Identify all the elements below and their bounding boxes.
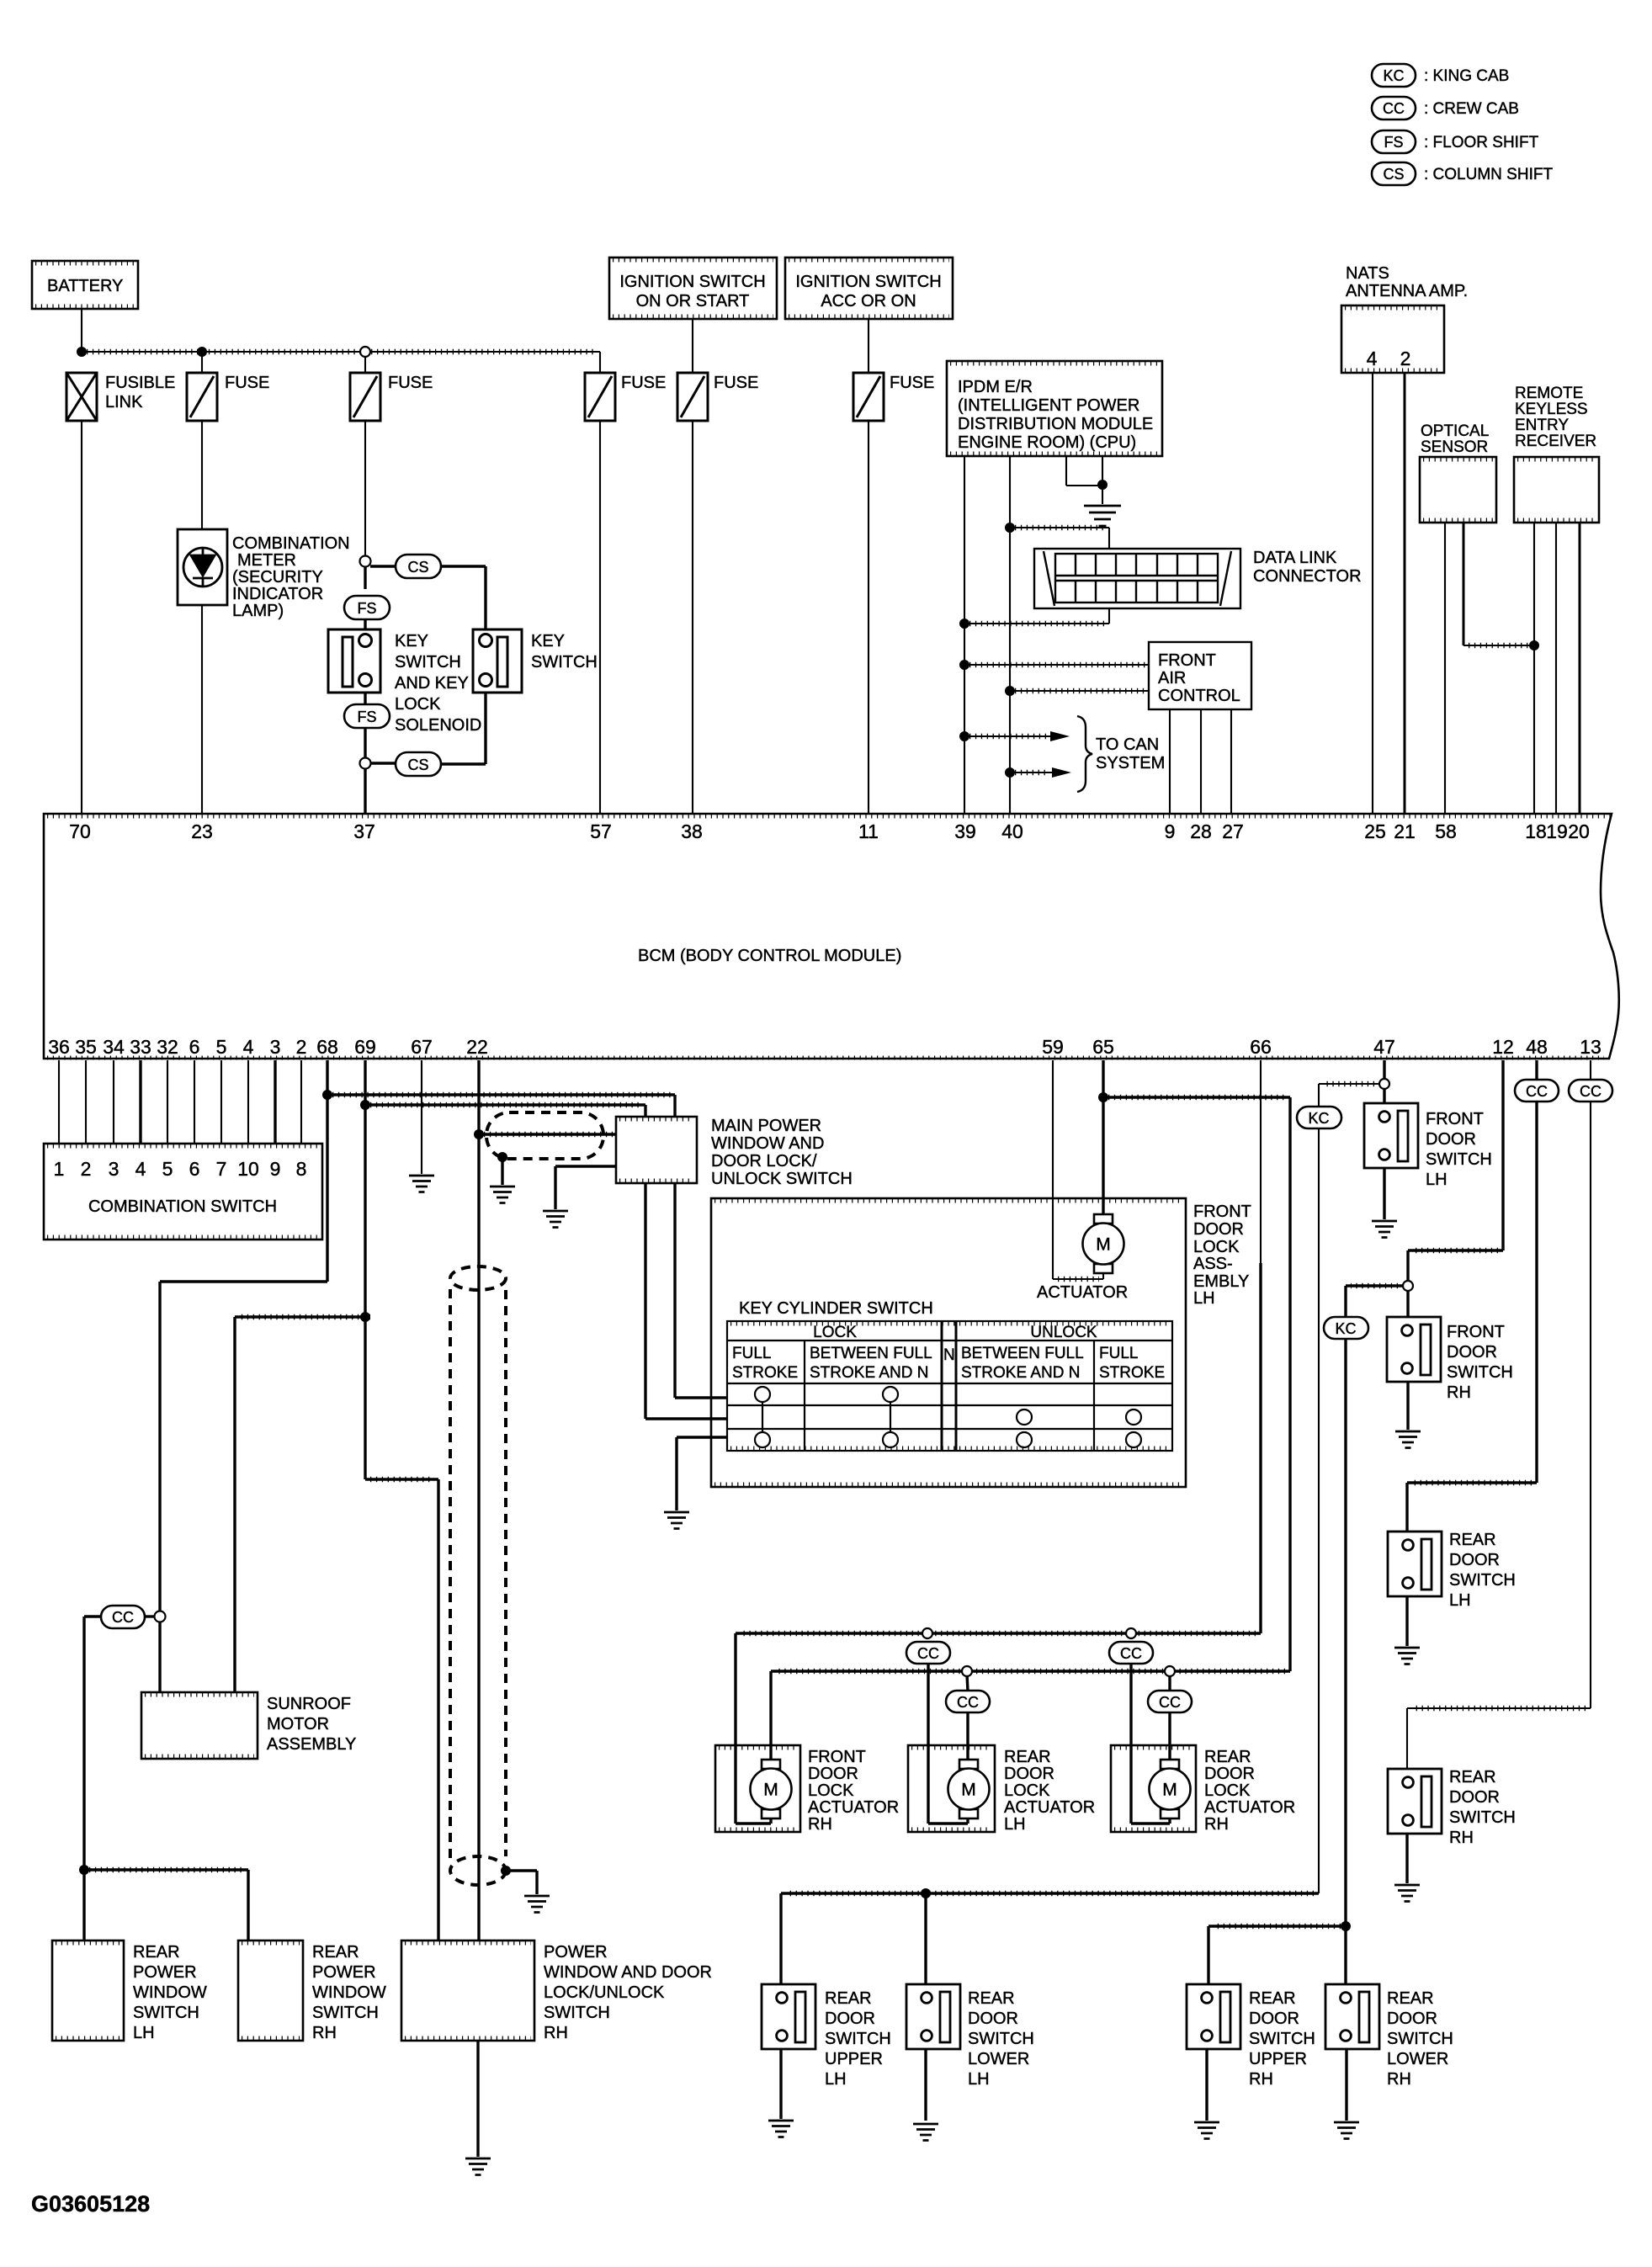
svg-text:22: 22 (466, 1036, 488, 1058)
svg-text:ACTUATOR: ACTUATOR (1204, 1798, 1295, 1817)
svg-text:SWITCH: SWITCH (531, 653, 598, 672)
svg-text:DATA LINK: DATA LINK (1253, 549, 1337, 567)
svg-text:ON OR START: ON OR START (636, 292, 750, 311)
svg-text:LH: LH (1449, 1591, 1471, 1610)
svg-text:4: 4 (135, 1158, 146, 1180)
svg-text:CONTROL: CONTROL (1158, 687, 1240, 705)
svg-text:RH: RH (312, 2024, 337, 2042)
svg-text:40: 40 (1001, 820, 1023, 842)
svg-text:REMOTE: REMOTE (1515, 385, 1583, 402)
svg-text:BETWEEN FULL: BETWEEN FULL (961, 1345, 1084, 1362)
svg-text:KEYLESS: KEYLESS (1515, 401, 1588, 418)
svg-text:LOCK: LOCK (395, 695, 441, 714)
svg-text:59: 59 (1042, 1036, 1064, 1058)
svg-text:FUSE: FUSE (890, 374, 934, 392)
svg-text:COMBINATION SWITCH: COMBINATION SWITCH (88, 1197, 277, 1216)
svg-text:57: 57 (590, 820, 612, 842)
svg-text:LH: LH (133, 2024, 155, 2042)
svg-text:48: 48 (1526, 1036, 1548, 1058)
svg-text:SWITCH: SWITCH (312, 2004, 379, 2022)
svg-text:POWER: POWER (312, 1963, 376, 1982)
svg-text:FRONT: FRONT (1158, 651, 1216, 670)
svg-text:DOOR: DOOR (825, 2010, 875, 2028)
svg-text:IGNITION SWITCH: IGNITION SWITCH (619, 273, 765, 291)
svg-text:FUSE: FUSE (225, 374, 269, 392)
svg-text:LOCK: LOCK (1204, 1781, 1251, 1800)
svg-text:IGNITION SWITCH: IGNITION SWITCH (795, 273, 941, 291)
svg-text:68: 68 (316, 1036, 338, 1058)
svg-text:STROKE AND N: STROKE AND N (810, 1364, 928, 1382)
svg-text:BETWEEN FULL: BETWEEN FULL (810, 1345, 932, 1362)
svg-text:TO CAN: TO CAN (1096, 735, 1159, 754)
svg-text:REAR: REAR (1004, 1748, 1051, 1766)
svg-text:CC: CC (957, 1694, 979, 1711)
svg-text:SWITCH: SWITCH (968, 2030, 1034, 2048)
svg-text:WINDOW: WINDOW (312, 1983, 386, 2002)
svg-text:POWER: POWER (133, 1963, 197, 1982)
svg-text:UNLOCK SWITCH: UNLOCK SWITCH (711, 1170, 853, 1188)
svg-text:REAR: REAR (1204, 1748, 1251, 1766)
svg-text:CC: CC (1580, 1083, 1602, 1100)
svg-text:CC: CC (917, 1645, 939, 1662)
svg-text:KC: KC (1383, 67, 1404, 84)
svg-text:STROKE AND N: STROKE AND N (961, 1364, 1080, 1382)
svg-text:LOCK: LOCK (808, 1781, 854, 1800)
svg-text:SOLENOID: SOLENOID (395, 716, 481, 735)
svg-text:KC: KC (1308, 1110, 1329, 1127)
svg-text:2: 2 (81, 1158, 92, 1180)
svg-text:DOOR: DOOR (1449, 1551, 1500, 1569)
svg-text:CC: CC (1526, 1083, 1548, 1100)
svg-text:DISTRIBUTION MODULE: DISTRIBUTION MODULE (958, 415, 1153, 433)
svg-text:ACC OR ON: ACC OR ON (821, 292, 916, 311)
svg-text:28: 28 (1190, 820, 1212, 842)
svg-text:1: 1 (54, 1158, 65, 1180)
svg-text:REAR: REAR (312, 1943, 359, 1962)
svg-text:32: 32 (157, 1036, 178, 1058)
svg-text:SWITCH: SWITCH (544, 2004, 610, 2022)
svg-text:LINK: LINK (105, 393, 143, 411)
svg-text:: FLOOR SHIFT: : FLOOR SHIFT (1424, 134, 1539, 151)
svg-text:: CREW CAB: : CREW CAB (1424, 100, 1519, 118)
svg-text:KC: KC (1335, 1320, 1356, 1337)
svg-text:70: 70 (69, 820, 91, 842)
svg-text:20: 20 (1568, 820, 1590, 842)
svg-text:RH: RH (1449, 1829, 1474, 1847)
svg-text:RH: RH (1387, 2070, 1411, 2089)
svg-text:NATS: NATS (1346, 264, 1389, 283)
svg-text:6: 6 (189, 1036, 200, 1058)
svg-text:POWER: POWER (544, 1943, 608, 1962)
svg-text:FRONT: FRONT (1447, 1323, 1505, 1341)
svg-text:SWITCH: SWITCH (1447, 1363, 1513, 1382)
svg-text:10: 10 (237, 1158, 259, 1180)
svg-text:ANTENNA AMP.: ANTENNA AMP. (1346, 282, 1468, 300)
svg-text:25: 25 (1364, 820, 1386, 842)
svg-text:9: 9 (1165, 820, 1176, 842)
svg-text:ACTUATOR: ACTUATOR (1037, 1283, 1128, 1302)
svg-text:EMBLY: EMBLY (1193, 1272, 1249, 1291)
svg-text:18: 18 (1525, 820, 1547, 842)
svg-text:: COLUMN SHIFT: : COLUMN SHIFT (1424, 166, 1553, 183)
svg-text:SENSOR: SENSOR (1421, 438, 1488, 456)
svg-text:FS: FS (357, 709, 376, 725)
svg-text:2: 2 (296, 1036, 307, 1058)
svg-text:BCM (BODY CONTROL MODULE): BCM (BODY CONTROL MODULE) (638, 947, 901, 965)
svg-text:FS: FS (1384, 134, 1403, 151)
svg-text:DOOR: DOOR (1447, 1343, 1497, 1362)
svg-text:12: 12 (1492, 1036, 1514, 1058)
svg-text:FRONT: FRONT (1426, 1110, 1484, 1128)
svg-text:FUSIBLE: FUSIBLE (105, 374, 175, 392)
svg-text:58: 58 (1435, 820, 1457, 842)
svg-text:39: 39 (954, 820, 976, 842)
svg-text:CC: CC (1159, 1694, 1181, 1711)
svg-text:WINDOW AND: WINDOW AND (711, 1134, 824, 1153)
svg-text:UPPER: UPPER (825, 2050, 883, 2068)
svg-text:RECEIVER: RECEIVER (1515, 433, 1596, 450)
svg-text:(INTELLIGENT POWER: (INTELLIGENT POWER (958, 396, 1139, 415)
svg-text:FUSE: FUSE (621, 374, 666, 392)
svg-text:ASSEMBLY: ASSEMBLY (267, 1735, 356, 1754)
svg-text:UNLOCK: UNLOCK (1030, 1324, 1097, 1341)
svg-text:FULL: FULL (732, 1345, 771, 1362)
svg-text:DOOR: DOOR (1004, 1765, 1054, 1783)
svg-text:2: 2 (1400, 348, 1411, 369)
svg-text:STROKE: STROKE (1099, 1364, 1165, 1382)
svg-text:CC: CC (1120, 1645, 1142, 1662)
svg-text:65: 65 (1092, 1036, 1114, 1058)
svg-text:KEY: KEY (395, 632, 428, 650)
svg-text:DOOR: DOOR (1449, 1788, 1500, 1807)
svg-text:LOCK: LOCK (1004, 1781, 1050, 1800)
svg-text:33: 33 (130, 1036, 151, 1058)
svg-text:LOCK: LOCK (813, 1324, 857, 1341)
svg-text:RH: RH (544, 2024, 568, 2042)
svg-text:34: 34 (103, 1036, 125, 1058)
svg-text:LH: LH (825, 2070, 847, 2089)
svg-text:IPDM E/R: IPDM E/R (958, 378, 1033, 396)
svg-text:FS: FS (357, 600, 376, 617)
svg-text:MOTOR: MOTOR (267, 1715, 329, 1733)
svg-text:SWITCH: SWITCH (1449, 1571, 1516, 1590)
svg-text:: KING CAB: : KING CAB (1424, 67, 1509, 85)
svg-text:REAR: REAR (133, 1943, 180, 1962)
svg-text:8: 8 (296, 1158, 307, 1180)
svg-text:KEY CYLINDER SWITCH: KEY CYLINDER SWITCH (739, 1299, 933, 1318)
svg-text:4: 4 (1367, 348, 1378, 369)
svg-text:DOOR: DOOR (1204, 1765, 1255, 1783)
svg-text:REAR: REAR (1249, 1989, 1296, 2008)
svg-text:DOOR: DOOR (1249, 2010, 1299, 2028)
svg-text:RH: RH (808, 1815, 832, 1834)
svg-text:27: 27 (1222, 820, 1244, 842)
svg-text:LH: LH (1004, 1815, 1026, 1834)
svg-text:DOOR LOCK/: DOOR LOCK/ (711, 1152, 817, 1171)
svg-text:5: 5 (162, 1158, 173, 1180)
svg-text:WINDOW: WINDOW (133, 1983, 207, 2002)
svg-text:UPPER: UPPER (1249, 2050, 1307, 2068)
svg-text:7: 7 (216, 1158, 227, 1180)
svg-text:11: 11 (858, 820, 879, 842)
svg-text:SWITCH: SWITCH (395, 653, 461, 672)
svg-text:LOWER: LOWER (968, 2050, 1029, 2068)
svg-text:BATTERY: BATTERY (47, 277, 123, 295)
svg-text:REAR: REAR (968, 1989, 1015, 2008)
svg-text:DOOR: DOOR (968, 2010, 1018, 2028)
svg-text:ENTRY: ENTRY (1515, 417, 1569, 434)
svg-text:SWITCH: SWITCH (1449, 1808, 1516, 1827)
svg-text:47: 47 (1373, 1036, 1395, 1058)
svg-text:4: 4 (243, 1036, 254, 1058)
svg-text:CONNECTOR: CONNECTOR (1253, 567, 1362, 586)
svg-text:FRONT: FRONT (1193, 1203, 1251, 1221)
svg-text:AIR: AIR (1158, 669, 1186, 688)
svg-text:LH: LH (968, 2070, 990, 2089)
svg-text:SWITCH: SWITCH (133, 2004, 199, 2022)
svg-text:5: 5 (216, 1036, 227, 1058)
svg-text:6: 6 (189, 1158, 200, 1180)
svg-text:RH: RH (1249, 2070, 1273, 2089)
svg-text:DOOR: DOOR (1193, 1220, 1244, 1239)
svg-text:CS: CS (407, 559, 428, 576)
svg-text:LAMP): LAMP) (232, 602, 284, 620)
svg-text:3: 3 (109, 1158, 120, 1180)
svg-text:N: N (943, 1346, 955, 1364)
svg-text:CC: CC (1383, 100, 1405, 117)
svg-text:ENGINE ROOM) (CPU): ENGINE ROOM) (CPU) (958, 433, 1136, 452)
svg-text:66: 66 (1250, 1036, 1272, 1058)
svg-text:CS: CS (1383, 166, 1404, 183)
svg-text:RH: RH (1204, 1815, 1229, 1834)
svg-text:9: 9 (270, 1158, 281, 1180)
svg-text:FULL: FULL (1099, 1345, 1138, 1362)
svg-text:SWITCH: SWITCH (1249, 2030, 1315, 2048)
svg-text:(SECURITY: (SECURITY (232, 568, 323, 587)
svg-text:FUSE: FUSE (714, 374, 758, 392)
svg-text:KEY: KEY (531, 632, 565, 650)
svg-text:21: 21 (1394, 820, 1416, 842)
svg-text:35: 35 (75, 1036, 97, 1058)
svg-text:COMBINATION: COMBINATION (232, 534, 350, 553)
svg-text:13: 13 (1580, 1036, 1602, 1058)
svg-text:REAR: REAR (1449, 1768, 1496, 1787)
svg-text:DOOR: DOOR (1387, 2010, 1437, 2028)
svg-text:3: 3 (270, 1036, 281, 1058)
svg-text:MAIN POWER: MAIN POWER (711, 1117, 821, 1135)
svg-text:SYSTEM: SYSTEM (1096, 754, 1165, 772)
svg-text:REAR: REAR (1449, 1531, 1496, 1549)
svg-text:CC: CC (112, 1609, 134, 1626)
svg-text:FRONT: FRONT (808, 1748, 866, 1766)
svg-text:WINDOW AND DOOR: WINDOW AND DOOR (544, 1963, 712, 1982)
svg-text:G03605128: G03605128 (31, 2191, 150, 2217)
svg-text:SWITCH: SWITCH (1387, 2030, 1453, 2048)
svg-text:38: 38 (681, 820, 703, 842)
svg-text:36: 36 (48, 1036, 70, 1058)
svg-text:REAR: REAR (1387, 1989, 1434, 2008)
svg-text:69: 69 (354, 1036, 376, 1058)
svg-text:19: 19 (1546, 820, 1568, 842)
svg-text:DOOR: DOOR (1426, 1130, 1476, 1149)
svg-text:ACTUATOR: ACTUATOR (808, 1798, 899, 1817)
svg-text:AND KEY: AND KEY (395, 674, 469, 693)
svg-text:INDICATOR: INDICATOR (232, 585, 323, 603)
svg-text:REAR: REAR (825, 1989, 872, 2008)
svg-text:CS: CS (407, 757, 428, 773)
svg-text:SWITCH: SWITCH (825, 2030, 891, 2048)
svg-text:ASS-: ASS- (1193, 1255, 1233, 1273)
svg-text:LOWER: LOWER (1387, 2050, 1448, 2068)
svg-text:RH: RH (1447, 1383, 1471, 1402)
svg-text:67: 67 (411, 1036, 433, 1058)
svg-text:LH: LH (1426, 1171, 1447, 1189)
svg-text:SUNROOF: SUNROOF (267, 1695, 351, 1713)
svg-text:23: 23 (191, 820, 213, 842)
svg-text:OPTICAL: OPTICAL (1421, 422, 1489, 440)
svg-text:STROKE: STROKE (732, 1364, 798, 1382)
svg-text:SWITCH: SWITCH (1426, 1150, 1492, 1169)
svg-text:DOOR: DOOR (808, 1765, 858, 1783)
svg-text:ACTUATOR: ACTUATOR (1004, 1798, 1095, 1817)
svg-text:LOCK: LOCK (1193, 1238, 1240, 1256)
svg-text:LOCK/UNLOCK: LOCK/UNLOCK (544, 1983, 665, 2002)
svg-text:FUSE: FUSE (388, 374, 433, 392)
svg-text:37: 37 (353, 820, 375, 842)
svg-text:LH: LH (1193, 1289, 1215, 1308)
svg-text:METER: METER (237, 551, 296, 570)
